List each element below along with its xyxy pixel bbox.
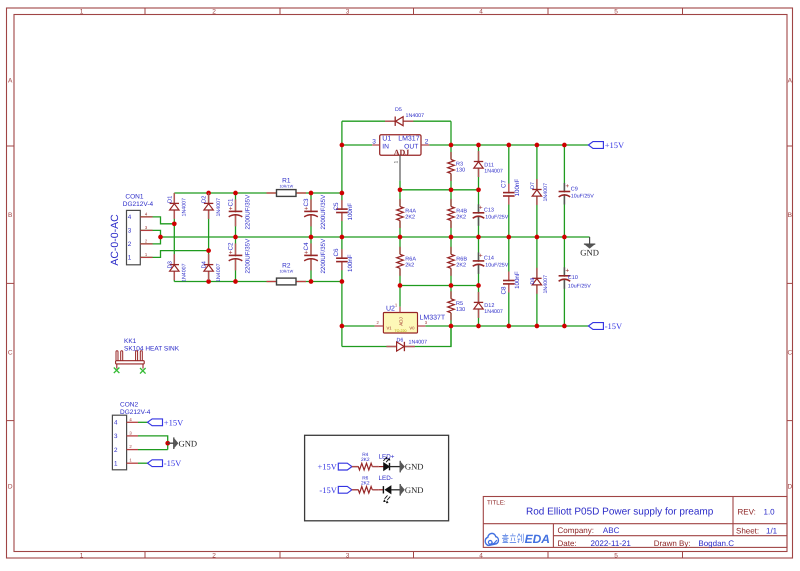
wire U2 IN segment (342, 325, 375, 327)
resistor R4A (396, 206, 404, 220)
connector CON1 (127, 210, 153, 264)
junction R3-R4B (449, 187, 454, 192)
junction C13-C14 mid (476, 235, 481, 240)
resistor R6B (447, 254, 455, 268)
svg-text:C6: C6 (333, 248, 340, 257)
wire D2-D4 branch (208, 193, 210, 282)
svg-text:10R/1W: 10R/1W (279, 270, 293, 274)
wire +15V to R4 (352, 466, 359, 468)
svg-text:C5: C5 (333, 202, 340, 211)
svg-text:CON2: CON2 (120, 401, 138, 408)
svg-text:ADJ: ADJ (398, 317, 403, 326)
wire D5 bypass top (342, 120, 451, 122)
ground GND main (589, 237, 591, 244)
svg-text:D8: D8 (530, 278, 536, 285)
junction C3 top rail (309, 191, 314, 196)
svg-text:2K2: 2K2 (361, 457, 370, 463)
wire -15V to R6 (352, 489, 359, 491)
diode D3 (173, 254, 175, 265)
svg-text:100nF: 100nF (514, 179, 521, 197)
wire mid 0V rail (161, 236, 590, 238)
capacitor C8 (501, 281, 516, 283)
junction C2 bottom rail (233, 279, 238, 284)
svg-text:D1: D1 (167, 196, 173, 203)
U1 OUT pin (421, 144, 429, 146)
resistor R4 (352, 466, 359, 468)
svg-text:LED-: LED- (379, 475, 393, 482)
wire R3-R4B-R6B-R5 branch (450, 121, 452, 346)
wire CON2 pin4 to +15V flag (138, 421, 148, 423)
svg-text:EDA: EDA (525, 532, 550, 546)
junction C7 out rail (506, 143, 511, 148)
svg-text:Bogdan.C: Bogdan.C (698, 539, 734, 548)
svg-text:D5: D5 (395, 107, 402, 113)
svg-text:1N4007: 1N4007 (182, 198, 188, 217)
diode D1 (173, 193, 175, 204)
svg-text:1N4007: 1N4007 (216, 198, 222, 217)
wire R6 to LED2 (379, 489, 383, 491)
svg-text:1.0: 1.0 (764, 508, 776, 517)
svg-text:2K2: 2K2 (405, 215, 415, 221)
svg-text:Rod Elliott P05D Power supply: Rod Elliott P05D Power supply for preamp (526, 507, 714, 518)
svg-text:C10: C10 (568, 275, 578, 281)
junction C10 -15V rail (562, 324, 567, 329)
svg-text:2K2: 2K2 (456, 262, 466, 268)
wire LED1 to GND (390, 466, 401, 468)
wire C5-C6 main vertical (341, 121, 343, 346)
U2 V1 pin (375, 325, 384, 327)
diode D6 (386, 342, 414, 351)
wire CON1 pin4 to bridge (140, 217, 174, 224)
svg-text:B: B (788, 212, 792, 219)
resistor R3 (447, 159, 455, 173)
junction AC1 node (172, 221, 177, 226)
net flag +15V (588, 142, 603, 149)
svg-text:TITLE:: TITLE: (487, 500, 506, 507)
svg-text:+: + (479, 204, 483, 211)
svg-text:1N4007: 1N4007 (409, 340, 428, 346)
svg-text:2: 2 (212, 552, 216, 559)
svg-text:130: 130 (456, 168, 465, 174)
svg-text:+: + (479, 252, 483, 259)
svg-text:1N4007: 1N4007 (543, 275, 549, 294)
diode D4 (208, 254, 210, 265)
svg-text:2K2: 2K2 (361, 480, 370, 486)
svg-text:TO-220: TO-220 (394, 329, 406, 333)
wire C3-C4 branch (310, 193, 312, 282)
capacitor C13 (472, 214, 485, 216)
title block (483, 497, 787, 548)
svg-text:D2: D2 (201, 196, 208, 203)
junction U2 IN node (340, 324, 345, 329)
svg-text:+: + (229, 249, 233, 256)
svg-text:LED+: LED+ (379, 453, 395, 460)
svg-text:3: 3 (346, 552, 350, 559)
svg-text:IN: IN (382, 143, 389, 150)
wire AC2 node link (173, 223, 175, 225)
ground GND at CON2 (168, 442, 174, 444)
svg-text:REV:: REV: (738, 508, 756, 517)
diode D12 (478, 292, 480, 303)
svg-text:2200UF/35V: 2200UF/35V (320, 238, 327, 274)
wire -15V output rail (425, 325, 588, 327)
wire CON2 pin3 to GND (138, 436, 168, 450)
junction D12 -15V rail (476, 324, 481, 329)
wire CON2 pin2 to GND (138, 449, 168, 451)
svg-text:+15V: +15V (605, 140, 625, 150)
junction R4B-R6B mid (449, 235, 454, 240)
connector CON2 (112, 415, 138, 470)
junction AC2 node (206, 248, 211, 253)
svg-text:ABC: ABC (603, 526, 620, 535)
svg-text:D: D (787, 484, 792, 491)
junction C7-C8 mid (506, 235, 511, 240)
svg-text:1: 1 (80, 9, 84, 16)
svg-text:1: 1 (128, 255, 132, 262)
svg-text:100nF: 100nF (347, 254, 354, 272)
ground GND at LED2 (399, 484, 401, 496)
svg-text:D: D (8, 484, 13, 491)
junction C14-D12 (476, 283, 481, 288)
svg-text:100nF: 100nF (347, 203, 354, 221)
svg-text:1N4007: 1N4007 (484, 309, 503, 315)
junction R6B-R5 (449, 283, 454, 288)
svg-text:GND: GND (405, 485, 424, 495)
junction C5 top rail (340, 191, 345, 196)
svg-text:10R/1W: 10R/1W (279, 185, 293, 189)
svg-text:4: 4 (128, 214, 132, 221)
svg-text:LM317: LM317 (398, 136, 420, 143)
U1 ADJ pin (399, 155, 401, 180)
junction D7 out rail (535, 143, 540, 148)
svg-text:C14: C14 (484, 255, 494, 261)
junction C3-C4 mid (309, 235, 314, 240)
svg-text:100nF: 100nF (514, 271, 521, 289)
svg-text:Sheet:: Sheet: (736, 527, 759, 536)
junction R5 -15V rail (449, 324, 454, 329)
svg-text:4: 4 (479, 552, 483, 559)
svg-text:-15V: -15V (319, 485, 337, 495)
svg-text:D4: D4 (202, 260, 208, 268)
svg-text:C: C (787, 350, 792, 357)
wire R4A branch (399, 181, 401, 237)
svg-text:DG212V-4: DG212V-4 (120, 409, 151, 416)
junction D8 -15V rail (535, 324, 540, 329)
net flag +15V at CON2 (148, 419, 163, 426)
svg-text:+: + (565, 267, 569, 274)
svg-text:Date:: Date: (558, 539, 577, 548)
svg-text:-15V: -15V (605, 321, 623, 331)
svg-text:R2: R2 (282, 263, 291, 270)
svg-text:D6: D6 (397, 338, 404, 344)
svg-text:1N4007: 1N4007 (406, 113, 425, 119)
svg-text:10uF/25V: 10uF/25V (485, 263, 508, 269)
svg-text:A: A (8, 78, 13, 85)
svg-text:GND: GND (405, 462, 424, 472)
capacitor C4 (304, 256, 319, 258)
junction R4A-R6A mid (398, 235, 403, 240)
wire CON1 pin1 to bridge (140, 251, 208, 258)
svg-text:A: A (788, 78, 793, 85)
svg-text:2k2: 2k2 (405, 262, 414, 268)
diode D7 (536, 179, 538, 190)
svg-text:+15V: +15V (164, 417, 184, 427)
net flag -15V at LED box (338, 486, 352, 493)
svg-text:4: 4 (114, 420, 118, 427)
JLCEDA logo (485, 532, 550, 546)
junction U2 ADJ (398, 283, 403, 288)
svg-text:1: 1 (80, 552, 84, 559)
capacitor C2 (228, 256, 243, 258)
resistor R6A (396, 254, 404, 268)
net flag -15V (588, 323, 603, 330)
svg-text:D7: D7 (530, 182, 536, 189)
svg-text:V1: V1 (387, 325, 393, 330)
capacitor C9 (558, 192, 571, 194)
svg-text:U1: U1 (382, 136, 391, 143)
svg-text:3: 3 (346, 9, 350, 16)
wire CON1 pin2 to 0V (140, 237, 160, 244)
svg-text:C9: C9 (571, 186, 578, 192)
svg-text:3: 3 (114, 433, 118, 440)
svg-text:2: 2 (114, 447, 118, 454)
junction D7-D8 mid (535, 235, 540, 240)
svg-text:2022-11-21: 2022-11-21 (591, 539, 632, 548)
svg-text:2200UF/35V: 2200UF/35V (245, 238, 252, 274)
wire LED2 to GND (391, 489, 400, 491)
resistor R5 (447, 299, 455, 313)
U2 V0 pin (418, 325, 426, 327)
svg-text:-15V: -15V (164, 458, 182, 468)
svg-text:1N4007: 1N4007 (543, 183, 549, 202)
wire U1 ADJ rail (400, 189, 479, 191)
svg-text:3: 3 (128, 228, 132, 235)
wire D6 bypass bottom (342, 326, 451, 347)
LED LED+ indicator (383, 457, 390, 471)
svg-text:1: 1 (114, 461, 118, 468)
capacitor C1 (228, 212, 243, 214)
wire +15V output rail (429, 144, 588, 146)
capacitor C7 (501, 193, 516, 195)
svg-text:10uF/25V: 10uF/25V (571, 194, 594, 200)
diode D5 (385, 117, 413, 126)
junction D2 top rail (206, 191, 211, 196)
svg-text:5: 5 (614, 9, 618, 16)
svg-text:2: 2 (212, 9, 216, 16)
svg-text:1: 1 (393, 161, 399, 164)
svg-text:2K2: 2K2 (456, 215, 466, 221)
wire C9-C10 branch (563, 145, 565, 326)
junction C4 bottom rail (309, 279, 314, 284)
svg-text:SK104 HEAT SINK: SK104 HEAT SINK (124, 345, 180, 352)
diode D2 (208, 193, 210, 204)
net flag +15V at LED box (338, 463, 352, 470)
svg-text:1N4007: 1N4007 (216, 263, 222, 282)
junction D4 bottom rail (206, 279, 211, 284)
svg-text:C13: C13 (484, 207, 494, 213)
svg-text:KK1: KK1 (124, 338, 137, 345)
svg-text:2200UF/35V: 2200UF/35V (245, 194, 252, 230)
junction U1 IN node (340, 143, 345, 148)
ground GND at LED1 (399, 461, 401, 473)
junction C6 bottom rail (340, 279, 345, 284)
svg-text:2: 2 (128, 241, 132, 248)
resistor R4B (447, 206, 455, 220)
svg-text:C7: C7 (501, 179, 508, 188)
LED LED- indicator (383, 486, 391, 503)
op-amp U1 LM317 body (380, 135, 421, 156)
svg-text:+: + (565, 183, 569, 190)
U1 IN pin (372, 144, 380, 146)
svg-text:U2: U2 (386, 305, 395, 312)
svg-text:D3: D3 (166, 261, 173, 268)
junction D11 out rail (476, 143, 481, 148)
svg-text:DG212V-4: DG212V-4 (123, 201, 154, 208)
op-amp U2 LM337 body (383, 313, 417, 334)
wire CON1 pin3 to 0V (140, 230, 160, 237)
resistor R2 (267, 278, 307, 285)
svg-text:GND: GND (580, 247, 599, 257)
svg-text:10uF/25V: 10uF/25V (568, 283, 591, 289)
svg-text:+: + (304, 249, 308, 256)
svg-text:R1: R1 (282, 178, 291, 185)
junction CON1 0V (158, 235, 163, 240)
svg-text:+: + (304, 205, 308, 212)
wire R4 to LED1 (379, 466, 384, 468)
junction C8 -15V rail (506, 324, 511, 329)
U2 ADJ pin (399, 307, 401, 313)
wire CON2 pin1 to -15V flag (138, 462, 148, 464)
resistor R1 (267, 190, 307, 197)
svg-text:1N4007: 1N4007 (484, 168, 503, 174)
net flag -15V at CON2 (148, 460, 163, 467)
wire bottom raw rail (174, 281, 342, 283)
svg-text:GND: GND (179, 438, 198, 448)
capacitor C10 (558, 277, 571, 279)
capacitor C6 (334, 259, 349, 261)
svg-text:CON1: CON1 (125, 193, 143, 200)
svg-text:Company:: Company: (558, 526, 594, 535)
svg-text:ADJ: ADJ (394, 148, 410, 157)
svg-text:5: 5 (614, 552, 618, 559)
KK1 mounting X right (140, 368, 146, 374)
wire top raw rail (174, 192, 342, 194)
diode D8 (536, 268, 538, 279)
LED indicator box (305, 435, 449, 521)
junction R3 out rail (449, 143, 454, 148)
heat sink KK1 (116, 351, 145, 369)
junction C5-C6 mid (340, 235, 345, 240)
svg-text:130: 130 (456, 307, 465, 313)
diode D11 (478, 151, 480, 162)
wire C1-C2 branch (235, 193, 237, 282)
capacitor C5 (334, 210, 349, 212)
svg-text:V0: V0 (409, 325, 415, 330)
wire D1-D3 branch (173, 193, 175, 282)
junction C9 out rail (562, 143, 567, 148)
wire R6A branch (399, 237, 401, 307)
wire D11-C13-C14-D12 branch (478, 145, 480, 326)
svg-text:C: C (8, 350, 13, 357)
KK1 mounting X left (114, 368, 120, 374)
svg-text:2200UF/35V: 2200UF/35V (320, 194, 327, 230)
wire D7-D8 branch (536, 145, 538, 326)
svg-text:C8: C8 (501, 286, 508, 295)
junction C1-C2 mid (233, 235, 238, 240)
svg-text:Drawn By:: Drawn By: (654, 539, 691, 548)
svg-text:1N4007: 1N4007 (182, 263, 188, 282)
resistor R6 (352, 489, 359, 491)
junction C9-C10 mid (562, 235, 567, 240)
junction C1 top rail (233, 191, 238, 196)
junction CON2 GND node (165, 441, 170, 446)
junction U1 ADJ (398, 187, 403, 192)
capacitor C14 (472, 262, 485, 264)
svg-text:10uF/25V: 10uF/25V (485, 215, 508, 221)
svg-text:+: + (229, 205, 233, 212)
wire U1 IN (342, 144, 372, 146)
wire C7-C8 branch (508, 145, 510, 326)
svg-text:AC-0-0-AC: AC-0-0-AC (109, 214, 121, 266)
junction D11-C13 (476, 187, 481, 192)
capacitor C3 (304, 212, 319, 214)
svg-text:LM337T: LM337T (420, 314, 446, 321)
wire U2 ADJ rail (400, 285, 479, 287)
svg-text:4: 4 (479, 9, 483, 16)
svg-text:B: B (8, 212, 12, 219)
svg-text:+15V: +15V (317, 462, 337, 472)
svg-text:1/1: 1/1 (766, 527, 778, 536)
